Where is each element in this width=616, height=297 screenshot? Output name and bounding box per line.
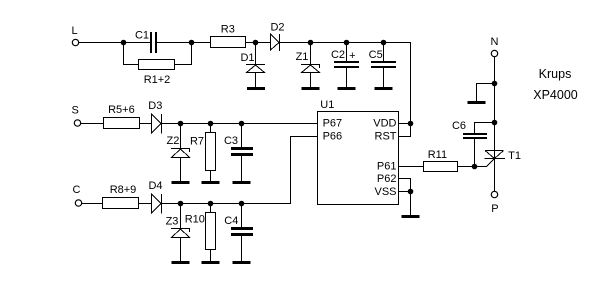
wire D3 to node G xyxy=(162,123,181,125)
resistor R3 xyxy=(211,24,246,48)
svg-text:C3: C3 xyxy=(224,135,238,147)
capacitor C3 xyxy=(224,135,253,156)
svg-text:C2: C2 xyxy=(331,49,345,61)
wire R7 to ground xyxy=(210,171,212,182)
ground (C2) xyxy=(338,87,356,90)
wire node A down to R1+2 xyxy=(124,43,139,65)
node B (junction) xyxy=(189,40,195,46)
svg-text:P62: P62 xyxy=(377,173,397,185)
wire C2 to ground xyxy=(346,68,348,88)
wire C to R8+9 xyxy=(82,203,103,205)
wire P61 to R11 xyxy=(399,166,424,168)
node E (junction) xyxy=(344,40,350,46)
svg-text:C: C xyxy=(73,184,81,196)
wire D1 to ground xyxy=(255,73,257,88)
svg-text:R7: R7 xyxy=(190,136,204,148)
resistor R1+2 xyxy=(139,60,175,87)
wire node P1 to ground xyxy=(477,84,495,102)
wire node E to node F xyxy=(347,42,384,44)
zener Z2 xyxy=(166,135,190,158)
node K (junction) xyxy=(208,201,214,207)
ground (R7) xyxy=(202,181,220,184)
wire RST pin to VDD node xyxy=(399,124,411,137)
wire node P1 to node P2 xyxy=(494,84,496,123)
node H (junction) xyxy=(208,121,214,127)
svg-text:Z1: Z1 xyxy=(296,51,309,63)
node A (junction) xyxy=(121,40,127,46)
svg-text:D3: D3 xyxy=(148,100,162,112)
gate node (junction) xyxy=(472,164,478,170)
svg-text:XP4000: XP4000 xyxy=(533,88,578,102)
terminal L xyxy=(72,25,79,46)
wire node H to node I xyxy=(211,123,242,125)
ground (Z1) xyxy=(302,87,320,90)
node D (junction) xyxy=(308,40,314,46)
svg-text:D1: D1 xyxy=(240,52,254,64)
wire node D down to Z1 xyxy=(310,43,312,65)
wire node I to pin P67 xyxy=(242,123,318,125)
wire Z1 to ground xyxy=(310,73,312,88)
wire node M to pin P66 xyxy=(242,137,318,204)
resistor R7 xyxy=(190,133,216,171)
wire R5+6 to D3 xyxy=(140,123,152,125)
node M (junction) xyxy=(239,201,245,207)
zener Z1 xyxy=(296,51,320,73)
svg-text:VSS: VSS xyxy=(374,186,396,198)
wire C4 to ground xyxy=(241,236,243,262)
ground (VSS) xyxy=(402,215,420,218)
capacitor C1 xyxy=(135,30,157,54)
diode D2 xyxy=(270,22,284,52)
svg-text:R3: R3 xyxy=(221,24,235,36)
ground (R10) xyxy=(202,261,220,264)
svg-text:R8+9: R8+9 xyxy=(110,184,137,196)
terminal C xyxy=(73,184,82,206)
svg-text:C4: C4 xyxy=(224,215,238,227)
svg-text:S: S xyxy=(72,105,79,117)
svg-text:R11: R11 xyxy=(428,149,447,161)
ground (D1) xyxy=(247,87,265,90)
svg-text:P67: P67 xyxy=(323,118,343,130)
node G (junction) xyxy=(178,121,184,127)
wire triac T1 to terminal P xyxy=(494,159,496,192)
wire C3 to ground xyxy=(241,156,243,182)
wire node K down to R10 xyxy=(210,204,212,213)
ground (N) xyxy=(468,101,486,104)
wire gate node to triac gate xyxy=(475,159,495,167)
ground (Z2) xyxy=(172,181,190,184)
capacitor C2 (electrolytic) xyxy=(331,49,359,68)
wire node G down to Z2 xyxy=(180,124,182,149)
node C (junction) xyxy=(253,40,259,46)
wire R3 to node C xyxy=(246,42,256,44)
svg-text:T1: T1 xyxy=(508,150,521,162)
wire node F down to C5 xyxy=(383,43,385,62)
wire node J down to Z3 xyxy=(180,204,182,229)
svg-text:Z3: Z3 xyxy=(166,216,179,228)
wire S to R5+6 xyxy=(81,123,104,125)
svg-text:VDD: VDD xyxy=(373,118,396,130)
terminal N xyxy=(491,36,499,57)
ground (Z3) xyxy=(172,261,190,264)
wire R11 to gate node xyxy=(458,166,475,168)
svg-text:L: L xyxy=(72,25,78,37)
svg-text:D2: D2 xyxy=(270,22,284,34)
wire node K to node M xyxy=(211,203,242,205)
wire VSS node to ground xyxy=(410,192,412,216)
wire node C down to D1 xyxy=(255,43,257,65)
svg-text:Krups: Krups xyxy=(539,67,572,81)
terminal P xyxy=(491,191,498,215)
wire C1 to node B xyxy=(157,42,192,44)
zener Z3 xyxy=(166,216,190,238)
node P2 (junction) xyxy=(492,120,498,126)
svg-text:C1: C1 xyxy=(135,30,149,42)
capacitor C5 xyxy=(369,49,396,68)
ground (C4) xyxy=(233,261,251,264)
ground (C5) xyxy=(375,87,393,90)
wire node D to node E xyxy=(311,42,347,44)
svg-text:Z2: Z2 xyxy=(166,135,179,147)
svg-text:N: N xyxy=(491,36,499,48)
wire node F to VDD node xyxy=(384,43,411,124)
resistor R10 xyxy=(185,213,216,250)
wire Z2 to ground xyxy=(180,158,182,182)
wire N to node P1 xyxy=(494,57,496,84)
svg-text:D4: D4 xyxy=(148,180,162,192)
wire node C to D2 xyxy=(256,42,271,44)
triac T1 xyxy=(485,150,522,162)
node I (junction) xyxy=(239,121,245,127)
svg-text:R10: R10 xyxy=(185,214,205,226)
wire R8+9 to D4 xyxy=(139,203,152,205)
svg-text:R5+6: R5+6 xyxy=(108,104,135,116)
ground (C3) xyxy=(233,181,251,184)
wire C5 to ground xyxy=(383,68,385,88)
wire Z3 to ground xyxy=(180,238,182,262)
svg-text:R1+2: R1+2 xyxy=(144,74,171,86)
IC U1 xyxy=(318,99,399,205)
wire node B to R3 xyxy=(192,42,211,44)
node F (junction) xyxy=(381,40,387,46)
wire node G to node H xyxy=(181,123,211,125)
resistor R11 xyxy=(424,149,458,172)
svg-text:P: P xyxy=(491,203,498,215)
wire node H down to R7 xyxy=(210,124,212,133)
diode D3 xyxy=(148,100,162,134)
wire node I down to C3 xyxy=(241,124,243,148)
svg-text:P66: P66 xyxy=(323,131,343,143)
wire R10 to ground xyxy=(210,250,212,262)
wire VDD pin to node xyxy=(399,123,411,125)
svg-text:U1: U1 xyxy=(320,99,334,111)
wire node P2 to C6 xyxy=(475,123,495,134)
wire node P2 to triac T1 xyxy=(494,123,496,151)
wire node A to C1 xyxy=(124,42,151,44)
wire node E down to C2 xyxy=(346,43,348,62)
wire D4 to node J xyxy=(162,203,181,205)
svg-text:RST: RST xyxy=(375,131,397,143)
wire node M down to C4 xyxy=(241,204,243,228)
wire L to node A xyxy=(79,42,124,44)
capacitor C4 xyxy=(224,215,253,236)
wire node J to node K xyxy=(181,203,211,205)
node P1 (junction) xyxy=(492,81,498,87)
diode D4 xyxy=(148,180,162,214)
wire VSS pin to node xyxy=(399,191,411,193)
wire C6 to gate node xyxy=(474,139,476,167)
svg-text:C6: C6 xyxy=(452,120,466,132)
wire R1+2 up to node B xyxy=(175,43,192,65)
svg-text:C5: C5 xyxy=(369,49,383,61)
node VDD (junction) xyxy=(408,121,414,127)
terminal S xyxy=(72,105,81,127)
diode D1 xyxy=(240,52,265,73)
svg-text:P61: P61 xyxy=(377,161,397,173)
node J (junction) xyxy=(178,201,184,207)
capacitor C6 xyxy=(452,120,487,139)
resistor R5+6 xyxy=(104,104,140,129)
wire D2 to node D xyxy=(280,42,311,44)
svg-text:+: + xyxy=(349,50,355,62)
wire P62 to VSS node xyxy=(399,179,411,192)
resistor R8+9 xyxy=(103,184,139,209)
node VSS (junction) xyxy=(408,189,414,195)
